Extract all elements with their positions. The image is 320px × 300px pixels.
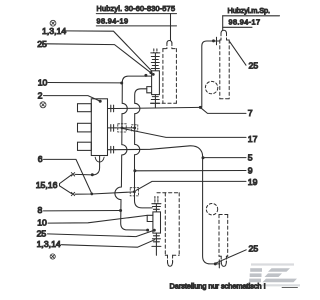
junction node A [199, 106, 202, 109]
cylinder Z1 dashed neck [167, 43, 172, 49]
leader 25 lower-left [48, 230, 154, 236]
leader 25 top-right [230, 42, 246, 65]
leader 25 top-left [47, 44, 151, 73]
clamp mark upper [71, 173, 74, 176]
pipe B (valve P2 cross link) [116, 127, 135, 129]
svg-text:2: 2 [38, 90, 43, 100]
junction node hose/leader 6 [90, 193, 93, 196]
leader 10 upper [48, 82, 121, 84]
junction node on riser 1 [120, 82, 123, 85]
svg-text:98.94-19: 98.94-19 [97, 16, 129, 25]
leader 17 [122, 128, 246, 137]
cylinder Z3 solid column [152, 197, 161, 212]
junction node on Z2 feed [212, 39, 215, 42]
svg-text:Hubzyl.m.Sp.: Hubzyl.m.Sp. [228, 6, 271, 15]
junction fitting J3 [130, 188, 138, 196]
cylinder Z3 lower fitting [152, 233, 161, 255]
cylinder Z2 dashed eye [205, 81, 217, 93]
end fitting at Z4 [218, 260, 220, 268]
cylinder Z1 barrel [152, 71, 160, 95]
leader 8 [44, 210, 120, 212]
leader 25 bottom-right [215, 250, 246, 263]
drain symbol [95, 157, 104, 162]
svg-text:25: 25 [249, 244, 259, 254]
valve block V1 [91, 99, 107, 156]
clamp tick on Z2 feed [216, 37, 218, 44]
cylinder Z1 dashed body [151, 49, 177, 104]
pipe C (valve P3 to cylinder Z4) [116, 146, 220, 264]
leader 5 [203, 157, 246, 159]
cylinder Z3 barrel [153, 212, 161, 233]
svg-text:25: 25 [37, 39, 47, 49]
svg-text:1,3,14: 1,3,14 [37, 239, 61, 249]
svg-text:1,3,14: 1,3,14 [42, 26, 66, 36]
drain pipe [92, 156, 99, 175]
cylinder Z4 (bottom right) dashed body [219, 215, 228, 257]
cylinder Z3 port bracket [147, 215, 153, 221]
leader from top-right label box to cylinder Z2 [222, 16, 224, 31]
leader 1,3,14 bottom [62, 240, 155, 247]
cylinder Z3 dashed neck [168, 255, 173, 263]
cylinder Z4 dashed neck [221, 256, 226, 262]
valve port P2 fitting [108, 125, 116, 132]
valve tab 1 [78, 104, 92, 112]
cylinder Z1 port bracket [147, 87, 152, 93]
svg-text:Hubzyl. 30-60-830-575: Hubzyl. 30-60-830-575 [97, 4, 176, 13]
svg-text:Darstellung nur schematisch !: Darstellung nur schematisch ! [170, 281, 266, 290]
svg-text:6: 6 [38, 154, 43, 164]
svg-text:17: 17 [248, 134, 258, 144]
pipe Z2 feed [202, 41, 219, 107]
valve tab 2 [78, 123, 92, 132]
cylinder Z2 dashed body [220, 40, 229, 99]
label box top-left: Hubzyl. 30-60-830-575 / 98.94-19 [96, 4, 176, 26]
cylinder Z2 (top right) dashed neck [221, 33, 227, 40]
leader 1,3,14 top [66, 31, 154, 73]
leader 7 [201, 108, 246, 114]
leader fork 15,16 [60, 175, 72, 194]
leader 9 [135, 170, 246, 172]
label box top-right: Hubzyl.m.Sp. / 98.94-17 [223, 6, 280, 27]
svg-text:25: 25 [249, 61, 259, 71]
position marker symbol mid [40, 102, 46, 108]
svg-text:5: 5 [248, 153, 253, 163]
pipe A (valve P1 to cylinder Z2) [116, 107, 201, 108]
svg-text:7: 7 [248, 108, 253, 118]
valve port P1 fitting [108, 105, 116, 112]
junction node on valve V1 [99, 100, 102, 103]
svg-text:25: 25 [37, 228, 47, 238]
svg-text:10: 10 [38, 77, 48, 87]
cylinder Z4 dashed eye [206, 204, 217, 215]
leader 6 [44, 159, 92, 194]
position marker symbol bottom [50, 254, 55, 259]
cylinder Z1 lower fitting [151, 95, 160, 108]
riser 2 (right vertical pipe) [135, 89, 153, 208]
junction node on riser 1 lower [119, 209, 122, 212]
svg-text:15,16: 15,16 [36, 180, 58, 190]
leader 10 lower [48, 215, 147, 223]
svg-text:10: 10 [37, 218, 47, 228]
valve port P3 fitting [108, 146, 116, 153]
clamp mark lower [71, 192, 74, 195]
svg-text:98.94-17: 98.94-17 [229, 18, 261, 27]
junction node drain/hose [91, 173, 94, 176]
svg-text:19: 19 [248, 177, 258, 187]
junction fitting J1 [118, 124, 126, 132]
leader 2 [44, 96, 101, 102]
position marker symbol top [50, 20, 56, 26]
cylinder Z3 (bottom middle) dashed body [157, 193, 179, 256]
pipe from clamp to drain junction [75, 173, 92, 176]
watermark logo K [249, 263, 300, 286]
valve tab 3 [78, 142, 92, 150]
svg-text:9: 9 [248, 166, 253, 176]
riser 1 (left vertical pipe) [115, 76, 152, 230]
leader 19 [136, 181, 246, 190]
svg-text:8: 8 [38, 205, 43, 215]
cylinder Z1 (top middle) solid column [151, 49, 160, 71]
pipe from lower clamp to fitting J3 [75, 192, 134, 194]
junction nodes at Z1 port [152, 73, 155, 76]
leader from top-left label box to cylinder Z1 [170, 14, 172, 41]
junction fitting J2 [132, 125, 138, 131]
